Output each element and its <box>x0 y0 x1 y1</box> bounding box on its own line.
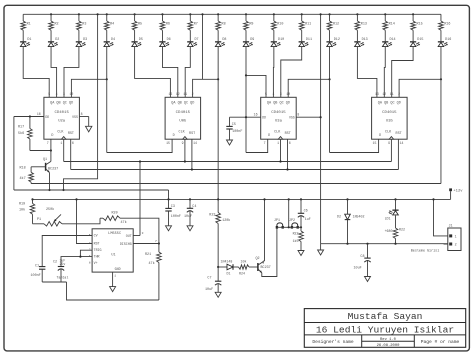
svg-text:8: 8 <box>297 113 299 117</box>
svg-text:10uF: 10uF <box>205 288 213 292</box>
svg-text:4k7: 4k7 <box>20 176 26 181</box>
resistor R19 10k <box>19 198 35 224</box>
svg-text:RST: RST <box>68 132 74 136</box>
op-amp U0b CD4015 shift register <box>165 92 201 145</box>
svg-text:13: 13 <box>168 92 172 96</box>
svg-text:3: 3 <box>63 92 65 96</box>
wire C1 C2 bottom node <box>42 281 66 283</box>
wire Q1 collector to D node <box>50 151 52 162</box>
wire QD U3a chain down (D12 node) <box>328 78 330 152</box>
svg-text:D12: D12 <box>334 38 340 42</box>
svg-text:U2a: U2a <box>58 120 66 124</box>
svg-text:Designer's name: Designer's name <box>312 339 354 345</box>
resistor R2 <box>49 14 59 30</box>
wire rail drop right (x320.6) to ground line <box>320 14 322 243</box>
ground C3 <box>166 226 172 231</box>
svg-text:1uF: 1uF <box>305 217 311 221</box>
svg-text:100nF: 100nF <box>31 274 41 278</box>
svg-text:1: 1 <box>455 234 457 238</box>
svg-text:250k: 250k <box>46 207 54 212</box>
resistor R22 1k5 <box>293 227 304 250</box>
svg-text:3: 3 <box>280 92 282 96</box>
svg-text:D15: D15 <box>417 38 423 42</box>
wire R20 to DISCHG node <box>120 218 159 243</box>
svg-text:47k: 47k <box>121 220 127 225</box>
svg-text:120k: 120k <box>222 218 230 223</box>
wire J1 pin 1 riser <box>432 198 447 236</box>
capacitor C7 10uF <box>205 267 221 292</box>
LED D7 <box>187 30 198 46</box>
wire timing loop <box>67 282 159 300</box>
node rail junction col9 <box>245 13 247 15</box>
node rail junction col10 <box>273 13 275 15</box>
svg-text:V+: V+ <box>94 261 98 265</box>
wire VDD bus <box>14 189 169 191</box>
svg-text:R7: R7 <box>194 22 198 26</box>
svg-text:C2: C2 <box>53 260 57 264</box>
resistor R1 <box>21 14 31 30</box>
svg-text:BC237: BC237 <box>261 266 271 270</box>
resistor R17 5k6 <box>18 115 32 150</box>
resistor R8 <box>216 14 226 30</box>
LED D16 <box>438 30 451 46</box>
svg-text:100nF: 100nF <box>171 215 181 219</box>
svg-text:D: D <box>379 134 381 138</box>
svg-text:R17: R17 <box>18 126 24 130</box>
resistor R23 120k <box>209 198 230 267</box>
wire QD U3b wrap down (D16 node) <box>440 78 442 183</box>
wire D8 to U0b QD pin 2 <box>193 47 219 98</box>
svg-text:RST: RST <box>396 132 402 136</box>
svg-text:C7: C7 <box>207 276 211 280</box>
node rail junction col15 <box>412 13 414 15</box>
capacitor C8 10uF <box>354 243 371 277</box>
resistor R16 <box>439 14 451 30</box>
svg-text:10k: 10k <box>19 208 25 213</box>
wire bus riser to jumper row <box>288 198 290 228</box>
wire D10 to U3a QB pin 4 <box>272 47 274 98</box>
wire QD U0b node down to bottom (D8 node) <box>217 78 219 199</box>
svg-text:D14: D14 <box>389 38 395 42</box>
svg-text:JP1: JP1 <box>274 218 280 222</box>
svg-text:11: 11 <box>390 92 394 96</box>
svg-text:10: 10 <box>286 92 290 96</box>
wire chain QD U2a to D U0b <box>107 139 172 152</box>
op-amp U1 LM555C timer <box>89 229 134 272</box>
svg-text:D9: D9 <box>250 38 254 42</box>
ground C7 <box>215 292 221 297</box>
wire reset bus <box>71 169 399 171</box>
svg-text:1: 1 <box>60 141 62 145</box>
svg-text:RST: RST <box>189 132 195 136</box>
title block <box>304 309 465 348</box>
wire D3 to U2a QC pin 3 <box>64 47 79 98</box>
connector J1 Besleme Girisi <box>411 225 461 254</box>
node rail junction col2 <box>50 13 52 15</box>
svg-text:CD4015: CD4015 <box>382 111 397 115</box>
svg-text:8: 8 <box>81 112 83 116</box>
svg-text:C8: C8 <box>360 255 364 259</box>
wire D2 to U2a QB pin 4 <box>51 47 57 98</box>
wire QD U2a chain down (D4 node) <box>106 78 108 152</box>
svg-text:C1: C1 <box>35 264 39 268</box>
node R23 bottom junction <box>217 266 219 268</box>
LED D14 <box>382 30 395 46</box>
svg-text:4: 4 <box>272 92 274 96</box>
svg-text:R22: R22 <box>293 231 299 235</box>
svg-text:R5: R5 <box>138 22 142 26</box>
wire D4 to U2a QD pin 10 <box>71 47 106 98</box>
svg-text:R4: R4 <box>110 22 114 26</box>
svg-text:LM555C: LM555C <box>108 232 121 236</box>
LED D15 <box>410 30 423 46</box>
resistor R22 680 <box>385 216 405 245</box>
wire 555 DISCHG pin 7 <box>133 240 160 245</box>
resistor R10 <box>272 14 284 30</box>
wire D5 to U0b QA pin 13 <box>135 47 171 98</box>
svg-text:THR: THR <box>94 255 100 259</box>
wire chain QA U3a to D U3a <box>246 139 268 152</box>
wire 555 CV pin 5 to C1 <box>42 236 92 267</box>
svg-text:9: 9 <box>388 141 390 145</box>
node rail junction col6 <box>161 13 163 15</box>
wire Q1 emitter down <box>49 173 51 190</box>
node rail junction col13 <box>356 13 358 15</box>
resistor R5 <box>132 14 142 30</box>
resistor R20 47k <box>100 211 127 225</box>
wire ground line <box>321 243 448 245</box>
svg-text:16: 16 <box>37 112 41 116</box>
node Q1 emitter junction <box>48 189 50 191</box>
wire U3b RST riser <box>397 139 399 169</box>
ground C5 <box>227 140 233 145</box>
svg-text:Rev 1.0: Rev 1.0 <box>380 338 397 342</box>
svg-text:R20: R20 <box>112 211 118 215</box>
svg-text:CV: CV <box>94 234 98 238</box>
wire Q2 collector riser <box>263 198 265 263</box>
node rail drop mid top <box>201 13 203 15</box>
wire U3a VDD pin 16 to C5 <box>230 113 267 120</box>
svg-text:Tantal: Tantal <box>57 275 69 279</box>
svg-text:7: 7 <box>264 141 266 145</box>
capacitor C1 100nF <box>31 264 46 282</box>
resistor R9 <box>244 14 254 30</box>
wire 555 OUT riser to clock bus <box>139 160 141 235</box>
wire Q1 base <box>31 166 45 168</box>
svg-text:10uF: 10uF <box>184 215 192 219</box>
svg-text:3: 3 <box>142 232 144 235</box>
svg-text:JP2: JP2 <box>289 218 295 222</box>
svg-text:2: 2 <box>398 92 400 96</box>
svg-text:R19: R19 <box>19 203 25 207</box>
svg-text:15: 15 <box>166 141 170 145</box>
op-amp U3b CD4015 shift register <box>372 92 408 145</box>
resistor R4 <box>104 14 114 30</box>
svg-text:1N5402: 1N5402 <box>353 214 365 218</box>
LED D2 <box>48 30 59 46</box>
wire U3b CLK riser <box>390 139 392 161</box>
svg-text:U3a: U3a <box>275 120 283 124</box>
wire D12 to U3a QD pin 10 <box>288 47 329 98</box>
svg-text:14: 14 <box>400 141 404 145</box>
LED D3 <box>76 30 87 46</box>
svg-text:P1: P1 <box>37 218 41 222</box>
svg-text:RST: RST <box>94 242 100 246</box>
ground rail-drop arrow <box>318 244 324 255</box>
LED D1 <box>20 30 31 46</box>
svg-text:D4: D4 <box>111 38 115 42</box>
wire D6 to U0b QB pin 12 <box>162 47 177 98</box>
svg-text:DISCHG: DISCHG <box>120 242 132 246</box>
node rail junction col8 <box>217 13 219 15</box>
op-amp U2a CD4015 shift register <box>44 92 80 145</box>
svg-text:D2: D2 <box>337 214 341 218</box>
svg-text:12: 12 <box>176 92 180 96</box>
wire 555 OUT pin 3 <box>133 232 143 236</box>
svg-text:D5: D5 <box>139 38 143 42</box>
wire D15 to U3b QC pin 11 <box>392 47 413 98</box>
svg-text:100nF: 100nF <box>232 130 242 134</box>
svg-text:5: 5 <box>265 92 267 96</box>
wire rail drop left (x97.6) <box>64 14 98 190</box>
svg-text:C6: C6 <box>304 209 308 213</box>
svg-text:C5: C5 <box>232 123 236 127</box>
svg-text:8: 8 <box>89 262 91 265</box>
svg-text:TRIG: TRIG <box>94 248 102 252</box>
svg-text:15: 15 <box>373 141 377 145</box>
wire U0b RST riser <box>191 139 193 170</box>
svg-text:QA QB QC QD: QA QB QC QD <box>378 101 401 105</box>
svg-text:2: 2 <box>455 243 457 247</box>
svg-text:1: 1 <box>114 274 116 277</box>
svg-text:14: 14 <box>193 141 197 145</box>
svg-text:Q2: Q2 <box>256 257 260 261</box>
LED D10 <box>271 30 284 46</box>
svg-text:1k5: 1k5 <box>293 239 299 243</box>
svg-text:VSS: VSS <box>289 116 295 120</box>
svg-text:VSS: VSS <box>72 115 78 119</box>
svg-text:10: 10 <box>69 92 73 96</box>
resistor R7 <box>188 14 198 30</box>
svg-text:D13: D13 <box>362 38 368 42</box>
svg-text:D1: D1 <box>27 38 31 42</box>
wire Q2 emitter loop to JP1 <box>262 227 277 276</box>
diode D1 1N4148 <box>218 260 246 276</box>
svg-text:BC237: BC237 <box>48 167 58 171</box>
svg-text:R18: R18 <box>20 166 26 170</box>
svg-text:1N4148: 1N4148 <box>221 260 233 264</box>
svg-text:R6: R6 <box>166 22 170 26</box>
node rail junction col12 <box>328 13 330 15</box>
svg-text:Mustafa Sayan: Mustafa Sayan <box>348 311 423 322</box>
wire P1 to R20 <box>62 218 100 224</box>
resistor R18 4k7 <box>20 166 34 183</box>
wire U3a RST riser <box>286 139 288 170</box>
svg-text:GND: GND <box>115 267 121 271</box>
svg-text:D: D <box>173 134 175 138</box>
wire U2a RST riser <box>70 139 72 169</box>
wire chain QD U3a to D U3b <box>330 139 379 152</box>
svg-text:D: D <box>268 134 270 138</box>
svg-text:R11: R11 <box>305 22 311 26</box>
svg-text:LD1: LD1 <box>385 217 391 221</box>
svg-text:CD4015: CD4015 <box>271 111 286 115</box>
resistor R6 <box>160 14 170 30</box>
svg-text:D7: D7 <box>195 38 199 42</box>
LED D11 <box>299 30 312 46</box>
svg-text:R21: R21 <box>145 253 151 257</box>
svg-text:5k6: 5k6 <box>18 131 24 136</box>
wire rail drop mid (x202.5) <box>202 14 204 79</box>
wire clock bus <box>64 161 392 163</box>
wire U2a VSS pin 8 to ground <box>72 112 89 126</box>
svg-text:R3: R3 <box>82 22 86 26</box>
LED D8 <box>215 30 226 46</box>
node rail drop right top <box>320 13 322 15</box>
svg-text:R12: R12 <box>333 22 339 26</box>
transistor Q1 BC237 <box>43 158 58 172</box>
wire J1 pin 2 to ground line <box>444 243 448 245</box>
svg-text:D1: D1 <box>227 272 231 276</box>
svg-text:1: 1 <box>277 141 279 145</box>
svg-text:6: 6 <box>72 141 74 145</box>
svg-text:D16: D16 <box>445 38 451 42</box>
capacitor C6 1uF <box>298 198 311 227</box>
svg-text:25v: 25v <box>60 262 66 266</box>
wire 555 TRIG pin 2 <box>80 250 92 256</box>
svg-text:U0b: U0b <box>179 119 187 124</box>
svg-text:D11: D11 <box>306 38 312 42</box>
wire D14 to U3b QB pin 12 <box>383 47 386 98</box>
svg-text:OUT: OUT <box>126 234 132 238</box>
svg-text:C3: C3 <box>171 205 175 209</box>
LED D9 <box>243 30 254 46</box>
svg-text:4: 4 <box>56 92 58 96</box>
svg-text:R9: R9 <box>249 22 253 26</box>
svg-text:R14: R14 <box>389 22 395 26</box>
node rail junction col11 <box>301 13 303 15</box>
svg-text:DD: DD <box>262 116 266 120</box>
svg-text:CLK: CLK <box>385 131 392 135</box>
svg-text:13: 13 <box>375 92 379 96</box>
wire D1 to U2a QA pin 5 <box>23 47 49 98</box>
wire +12V bus <box>33 198 451 200</box>
svg-text:DD: DD <box>45 115 49 119</box>
capacitor C5 100nF <box>226 117 242 140</box>
transistor Q2 BC237 <box>256 257 271 273</box>
svg-text:6: 6 <box>289 141 291 145</box>
svg-text:R8: R8 <box>222 22 226 26</box>
diode D2 1N5402 <box>337 198 364 245</box>
svg-text:47k: 47k <box>149 261 155 266</box>
LED D5 <box>132 30 143 46</box>
wire top rail <box>23 13 441 15</box>
svg-text:J1: J1 <box>449 225 453 229</box>
svg-text:RST: RST <box>285 132 291 136</box>
capacitor C2 1uF 25v Tantal <box>53 258 68 282</box>
node rail junction col7 <box>189 13 191 15</box>
power flag +12v <box>449 188 463 199</box>
resistor R21 47k <box>145 244 161 301</box>
svg-text:CD4015: CD4015 <box>176 111 191 115</box>
svg-text:D10: D10 <box>278 38 284 42</box>
svg-text:R1: R1 <box>27 22 31 26</box>
svg-text:U1: U1 <box>111 254 115 258</box>
wire R17 to U2a D node <box>30 139 52 151</box>
wire U3a VSS pin 8 to right <box>289 113 322 120</box>
svg-text:D3: D3 <box>83 38 87 42</box>
svg-text:QA QB QC QD: QA QB QC QD <box>50 101 73 105</box>
wire U3a CLK riser <box>279 139 281 162</box>
svg-text:7: 7 <box>47 141 49 145</box>
svg-text:D: D <box>51 134 53 138</box>
node rail junction col3 <box>78 13 80 15</box>
LED LD1 <box>385 198 399 220</box>
LED D13 <box>354 30 367 46</box>
wire 555 RST pin 4 riser <box>75 198 92 243</box>
capacitor C3 100nF <box>165 198 181 226</box>
potentiometer P1 250k <box>33 207 63 226</box>
wire VDD left drop <box>13 117 15 191</box>
node rail drop left joins VDD bus <box>62 189 64 191</box>
wire D13 to U3b QA pin 13 <box>357 47 377 98</box>
resistor R13 <box>355 14 367 30</box>
svg-text:U3b: U3b <box>386 119 394 124</box>
svg-text:10uF: 10uF <box>354 267 362 271</box>
resistor R24 10k <box>239 265 258 276</box>
svg-text:CLK: CLK <box>57 131 64 135</box>
LED D6 <box>159 30 170 46</box>
node rail junction col5 <box>134 13 136 15</box>
svg-text:Q1: Q1 <box>43 158 47 162</box>
jumper JP2 <box>289 218 299 229</box>
wire D11 to U3a QC pin 3 <box>281 47 302 98</box>
node rail drop left top <box>97 13 99 15</box>
svg-text:+12v: +12v <box>453 189 463 193</box>
svg-text:9: 9 <box>182 141 184 145</box>
LED D4 <box>104 30 115 46</box>
svg-text:R10: R10 <box>277 22 283 26</box>
svg-text:12: 12 <box>382 92 386 96</box>
wire wrap bus QD U3b to R18 <box>31 183 441 185</box>
resistor R12 <box>327 14 339 30</box>
wire VDD bus drop to +12V bus <box>168 190 170 199</box>
svg-text:26.08.2000: 26.08.2000 <box>377 344 401 348</box>
node rail junction col14 <box>384 13 386 15</box>
capacitor C4 10uF <box>184 198 196 226</box>
ground U2a VSS <box>86 126 92 132</box>
svg-text:CLK: CLK <box>274 131 281 135</box>
svg-text:Page # or name: Page # or name <box>421 339 460 345</box>
wire D16 to U3b QD pin 2 <box>399 47 441 98</box>
wire D7 to U0b QC pin 11 <box>185 47 190 98</box>
svg-text:10k: 10k <box>241 260 247 264</box>
svg-text:R22: R22 <box>399 227 405 231</box>
ground 555 GND <box>110 287 116 292</box>
svg-text:16: 16 <box>254 113 258 117</box>
svg-text:5: 5 <box>48 92 50 96</box>
svg-text:QA QB QC QD: QA QB QC QD <box>171 101 194 105</box>
svg-text:16 Ledli Yuruyen Isiklar: 16 Ledli Yuruyen Isiklar <box>316 324 454 335</box>
svg-text:CD4015: CD4015 <box>54 111 69 115</box>
ground C4 <box>187 226 193 231</box>
svg-text:R15: R15 <box>417 22 423 26</box>
svg-text:7: 7 <box>155 240 157 243</box>
wire 555 THR pin 6 to C2 <box>61 256 92 267</box>
resistor R15 <box>411 14 423 30</box>
svg-text:R13: R13 <box>361 22 367 26</box>
wire 555 GND pin 1 <box>113 272 117 287</box>
